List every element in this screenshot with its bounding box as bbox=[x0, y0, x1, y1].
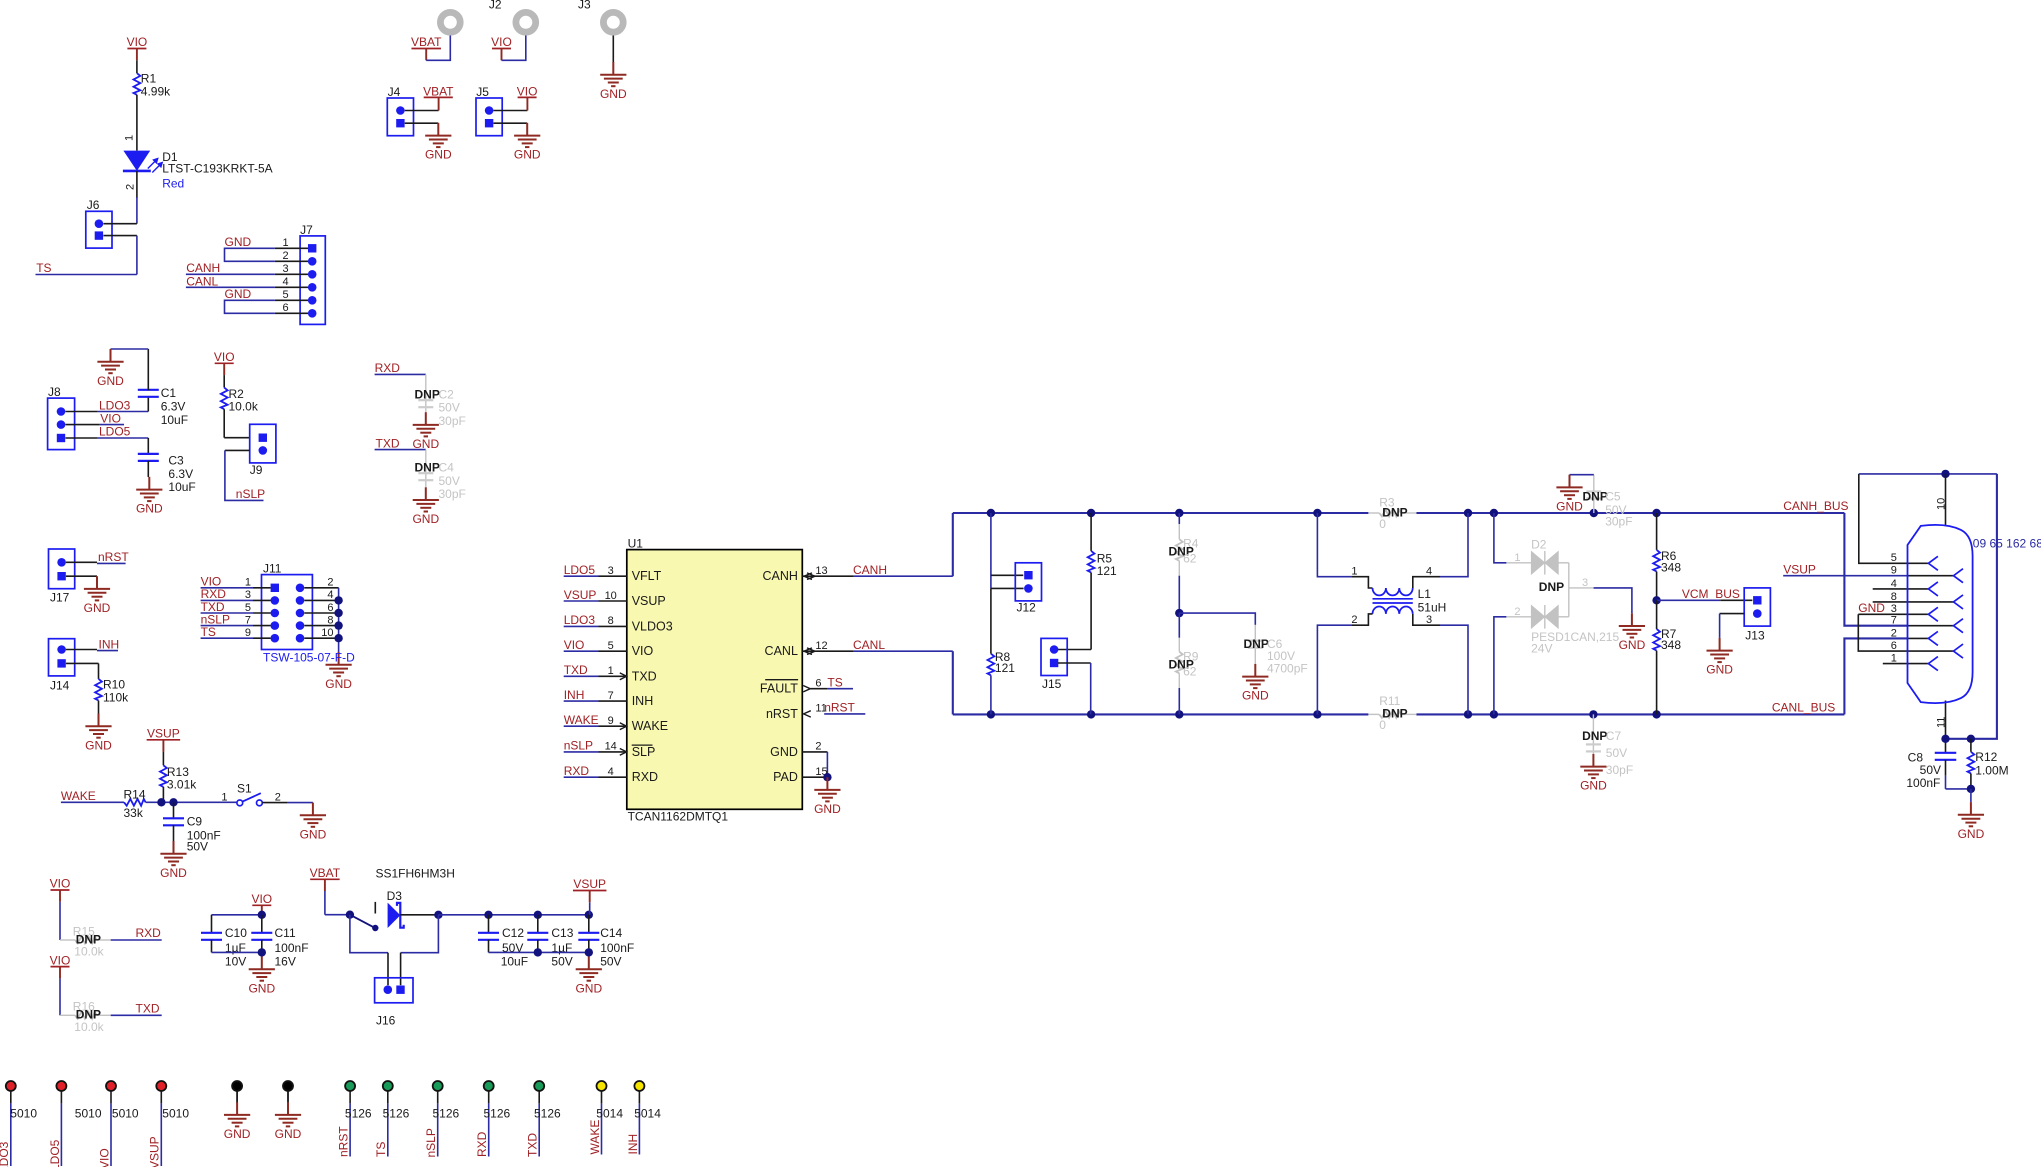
svg-text:GND: GND bbox=[275, 1127, 302, 1141]
J11 left pin wires bbox=[201, 587, 253, 589]
svg-text:6: 6 bbox=[282, 302, 288, 314]
wire bus to D2 pin1 bbox=[1494, 513, 1507, 563]
junction (bus bottom C7) bbox=[1589, 710, 1597, 718]
svg-text:RXD: RXD bbox=[375, 361, 401, 375]
wire DB9 pin1 stub bbox=[1883, 663, 1929, 665]
jumper J6 bbox=[86, 211, 112, 248]
wire L1 pin4 to bus top bbox=[1440, 513, 1468, 577]
svg-text:C13: C13 bbox=[551, 926, 573, 940]
jumper J16 bbox=[375, 978, 413, 1003]
svg-text:4: 4 bbox=[327, 589, 333, 601]
wire R1 to D1 anode bbox=[136, 95, 138, 151]
svg-text:J5: J5 bbox=[476, 85, 489, 99]
svg-text:7: 7 bbox=[1891, 615, 1897, 627]
svg-text:R2: R2 bbox=[229, 387, 245, 401]
wire CANH_BUS to DB9 pin7 bbox=[1844, 513, 1908, 626]
svg-text:24V: 24V bbox=[1531, 641, 1552, 655]
svg-text:6.3V: 6.3V bbox=[168, 467, 193, 481]
svg-text:2: 2 bbox=[275, 791, 281, 803]
svg-text:2: 2 bbox=[125, 184, 137, 190]
ground (C5) bbox=[1556, 475, 1582, 499]
net label RXD (R15) bbox=[111, 939, 162, 941]
svg-text:DNP: DNP bbox=[1382, 505, 1407, 519]
wire CANH bus top bbox=[953, 512, 1369, 514]
wire J9 pin2 to nSLP bbox=[225, 449, 250, 451]
svg-text:5126: 5126 bbox=[345, 1107, 372, 1121]
wire C10/C11 bottom rail bbox=[212, 951, 262, 953]
wire R2 to J9 bbox=[223, 409, 225, 438]
test point TP7 nRST 5126 bbox=[345, 1081, 355, 1091]
svg-text:GND: GND bbox=[136, 502, 163, 516]
wire VSUP to R13 bbox=[162, 752, 164, 766]
svg-text:1: 1 bbox=[1891, 653, 1897, 665]
junction (bus top R4) bbox=[1175, 509, 1183, 517]
svg-text:R10: R10 bbox=[103, 678, 125, 692]
ground (D2) bbox=[1619, 613, 1645, 637]
svg-text:GND: GND bbox=[248, 981, 275, 995]
capacitor C5 DNP bbox=[1593, 475, 1595, 513]
svg-text:CANL: CANL bbox=[765, 644, 798, 658]
wire J13 pin2 to ground bbox=[1720, 613, 1745, 615]
svg-text:1: 1 bbox=[245, 577, 251, 589]
wire R10 to ground bbox=[98, 701, 100, 714]
J7 pin wires and numbers bbox=[275, 247, 308, 249]
svg-text:J9: J9 bbox=[250, 463, 263, 477]
svg-text:GND: GND bbox=[84, 601, 111, 615]
jumper J13 bbox=[1744, 588, 1770, 626]
ground (C8/R12) bbox=[1958, 802, 1984, 826]
svg-text:4: 4 bbox=[282, 276, 288, 288]
svg-text:GND: GND bbox=[160, 866, 187, 880]
wire R13 to WAKE node bbox=[162, 787, 164, 802]
capacitor C8 bbox=[1945, 739, 1947, 753]
svg-text:1.00M: 1.00M bbox=[1975, 763, 2008, 777]
svg-text:121: 121 bbox=[995, 661, 1015, 675]
wire J16 bypass left bbox=[350, 915, 388, 953]
svg-text:4700pF: 4700pF bbox=[1267, 662, 1308, 676]
svg-text:GND: GND bbox=[1242, 689, 1269, 703]
svg-text:4: 4 bbox=[1426, 566, 1432, 578]
wire R7 to bus bottom bbox=[1656, 651, 1658, 715]
ground (J5) bbox=[514, 123, 540, 147]
svg-text:VIO: VIO bbox=[97, 1148, 111, 1167]
svg-text:5126: 5126 bbox=[433, 1107, 460, 1121]
svg-text:9: 9 bbox=[245, 627, 251, 639]
svg-text:CANH_BUS: CANH_BUS bbox=[1783, 499, 1848, 513]
svg-text:1: 1 bbox=[282, 237, 288, 249]
svg-text:5: 5 bbox=[245, 602, 251, 614]
jumper J5 bbox=[476, 98, 502, 136]
svg-text:8: 8 bbox=[608, 615, 614, 627]
svg-text:GND: GND bbox=[1958, 827, 1985, 841]
svg-text:2: 2 bbox=[1891, 627, 1897, 639]
test point TP2 LDO5 5010 bbox=[56, 1081, 66, 1091]
wire D3 cathode to node bbox=[400, 914, 438, 916]
svg-text:50V: 50V bbox=[1606, 746, 1627, 760]
svg-text:2: 2 bbox=[327, 577, 333, 589]
svg-text:50V: 50V bbox=[551, 954, 572, 968]
ground (C1) bbox=[97, 349, 123, 373]
svg-text:DNP: DNP bbox=[415, 460, 440, 474]
svg-text:GND: GND bbox=[1619, 638, 1646, 652]
svg-text:WAKE: WAKE bbox=[588, 1120, 602, 1155]
wire J12 pin2 bbox=[991, 587, 1024, 589]
connector J7 bbox=[300, 236, 325, 325]
svg-text:INH: INH bbox=[564, 688, 585, 702]
wire J6 pin2 to TS net bbox=[103, 235, 136, 237]
svg-text:J16: J16 bbox=[376, 1014, 396, 1028]
test point TP3 VIO 5010 bbox=[106, 1081, 116, 1091]
svg-text:DNP: DNP bbox=[1582, 729, 1607, 743]
svg-text:VIO: VIO bbox=[127, 35, 148, 49]
wire J4 pin2 to ground bbox=[405, 122, 439, 124]
wire J11 right common bbox=[338, 588, 340, 652]
wire C8/R12 bottom rail bbox=[1946, 788, 1971, 790]
svg-text:4: 4 bbox=[1891, 578, 1897, 590]
wire J5 pin2 to ground bbox=[493, 122, 527, 124]
svg-text:DNP: DNP bbox=[415, 387, 440, 401]
junction (C12 top) bbox=[484, 911, 492, 919]
svg-text:51uH: 51uH bbox=[1418, 601, 1447, 615]
svg-text:0: 0 bbox=[1379, 718, 1386, 732]
svg-text:GND: GND bbox=[225, 287, 252, 301]
wire VIO to R15 bbox=[59, 902, 61, 940]
junction (J11 pin 6) bbox=[334, 609, 342, 617]
svg-text:VSUP: VSUP bbox=[147, 727, 180, 741]
svg-text:CANL_BUS: CANL_BUS bbox=[1772, 701, 1835, 715]
svg-text:LDO5: LDO5 bbox=[564, 563, 596, 577]
svg-text:11: 11 bbox=[1936, 717, 1948, 728]
svg-text:GND: GND bbox=[814, 802, 841, 816]
svg-text:10.0k: 10.0k bbox=[74, 1020, 104, 1034]
svg-text:D2: D2 bbox=[1531, 537, 1547, 551]
ground (C7) bbox=[1580, 754, 1606, 778]
svg-text:VLDO3: VLDO3 bbox=[632, 619, 673, 633]
svg-text:5126: 5126 bbox=[534, 1107, 561, 1121]
svg-text:5010: 5010 bbox=[10, 1107, 37, 1121]
test point TP9 nSLP 5126 bbox=[433, 1081, 443, 1091]
wire DB9 top shell rail bbox=[1859, 473, 1997, 475]
svg-text:4: 4 bbox=[608, 766, 614, 778]
capacitor C12 bbox=[488, 915, 490, 933]
ground (J17) bbox=[84, 576, 110, 600]
test point TP13 INH 5014 bbox=[634, 1081, 644, 1091]
svg-text:121: 121 bbox=[1097, 564, 1117, 578]
wire bus to D2 pin2 bbox=[1494, 617, 1507, 715]
svg-text:C1: C1 bbox=[161, 386, 177, 400]
junction (bus bottom L1 in) bbox=[1313, 710, 1321, 718]
svg-text:VSUP: VSUP bbox=[564, 588, 597, 602]
wire C1 top rail bbox=[111, 348, 149, 350]
svg-text:5: 5 bbox=[1891, 552, 1897, 564]
svg-text:GND: GND bbox=[85, 738, 112, 752]
ground (C4) bbox=[413, 487, 439, 511]
junction (J11 pin 4) bbox=[334, 596, 342, 604]
svg-text:1: 1 bbox=[1351, 566, 1357, 578]
svg-text:VIO: VIO bbox=[517, 84, 538, 98]
wire J15 pin2 to bus bottom bbox=[1058, 662, 1091, 664]
junction (bus top L1 in) bbox=[1313, 509, 1321, 517]
svg-text:62: 62 bbox=[1183, 664, 1197, 678]
svg-text:nSLP: nSLP bbox=[564, 739, 593, 753]
svg-text:SS1FH6HM3H: SS1FH6HM3H bbox=[376, 867, 455, 881]
wire R4 to VCM node bbox=[1178, 576, 1180, 613]
wire VCM node to J13 bbox=[1657, 599, 1721, 601]
svg-text:GND: GND bbox=[514, 148, 541, 162]
svg-text:2: 2 bbox=[815, 741, 821, 753]
resistor R1 bbox=[134, 73, 141, 95]
svg-text:CANL: CANL bbox=[186, 274, 218, 288]
wire C5 to ground bbox=[1570, 474, 1594, 476]
ground (C3) bbox=[136, 477, 162, 501]
svg-text:6: 6 bbox=[1891, 640, 1897, 652]
svg-text:VIO: VIO bbox=[214, 350, 235, 364]
svg-text:348: 348 bbox=[1661, 638, 1681, 652]
svg-text:J11: J11 bbox=[263, 561, 282, 575]
test point TP6 GND bbox=[283, 1081, 293, 1091]
svg-text:8: 8 bbox=[327, 614, 333, 626]
svg-text:VIO: VIO bbox=[564, 638, 585, 652]
svg-text:5014: 5014 bbox=[596, 1107, 623, 1121]
resistor R6 348 bbox=[1653, 550, 1660, 572]
wire R8 to bus bottom bbox=[990, 675, 992, 714]
svg-text:INH: INH bbox=[632, 694, 654, 708]
svg-text:LDO3: LDO3 bbox=[99, 398, 131, 412]
wire CANH drop to J12 bbox=[990, 513, 992, 588]
wire DB9 shell right side bbox=[1946, 474, 1997, 739]
wire bus to R4 bbox=[1178, 513, 1180, 524]
wire J12 to R8 bbox=[990, 588, 992, 653]
svg-text:C11: C11 bbox=[275, 926, 296, 940]
ground (C2) bbox=[413, 412, 439, 436]
svg-text:9: 9 bbox=[1891, 565, 1897, 577]
svg-text:4.99k: 4.99k bbox=[141, 84, 171, 98]
svg-text:6: 6 bbox=[815, 678, 821, 690]
wire DB9 pin4 stub bbox=[1873, 588, 1929, 590]
wire D3 node to VSUP rail bbox=[438, 914, 588, 916]
svg-text:L1: L1 bbox=[1418, 587, 1432, 601]
svg-text:VIO: VIO bbox=[632, 644, 654, 658]
ground (S1) bbox=[300, 803, 326, 827]
junction (DB9 pin10) bbox=[1941, 470, 1949, 478]
svg-text:12: 12 bbox=[815, 640, 827, 652]
ground (J4) bbox=[425, 123, 451, 147]
resistor R9 DNP 162 bbox=[1178, 613, 1180, 638]
junction (VCM node) bbox=[1652, 596, 1660, 604]
svg-text:J12: J12 bbox=[1017, 601, 1037, 615]
capacitor C7 DNP bbox=[1592, 714, 1594, 754]
wire loop J3 to ground bbox=[612, 36, 614, 63]
test point TP11 TXD 5126 bbox=[534, 1081, 544, 1091]
svg-text:GND: GND bbox=[225, 235, 252, 249]
test point TP5 GND bbox=[232, 1081, 242, 1091]
wire J5 pin1 to VIO bbox=[493, 110, 527, 112]
junction (D3 cathode node) bbox=[434, 911, 442, 919]
J11 right pin wires bbox=[304, 587, 338, 589]
svg-text:GND: GND bbox=[325, 677, 352, 691]
svg-text:R1: R1 bbox=[141, 72, 157, 86]
ground (C12-C14) bbox=[576, 957, 602, 981]
svg-text:R14: R14 bbox=[124, 787, 146, 801]
junction (bus top D2) bbox=[1490, 509, 1498, 517]
wire C10/C11 top rail bbox=[212, 914, 262, 916]
svg-text:VBAT: VBAT bbox=[423, 84, 454, 98]
svg-text:DNP: DNP bbox=[1244, 637, 1269, 651]
junction (C11 bottom) bbox=[258, 948, 266, 956]
svg-text:CANL: CANL bbox=[853, 638, 885, 652]
svg-text:RXD: RXD bbox=[475, 1131, 489, 1157]
svg-text:C10: C10 bbox=[225, 926, 247, 940]
connector J8 bbox=[48, 398, 75, 450]
svg-text:13: 13 bbox=[815, 565, 827, 577]
resistor R7 348 bbox=[1656, 600, 1658, 629]
test point TP4 VSUP 5010 bbox=[156, 1081, 166, 1091]
svg-text:C2: C2 bbox=[439, 387, 455, 401]
svg-text:6: 6 bbox=[327, 602, 333, 614]
junction (C11 top) bbox=[258, 911, 266, 919]
wire GND to DB9 pin6 bbox=[1858, 614, 1953, 651]
svg-text:5010: 5010 bbox=[162, 1107, 189, 1121]
svg-text:nRST: nRST bbox=[766, 707, 798, 721]
svg-text:50V: 50V bbox=[439, 474, 460, 488]
svg-text:INH: INH bbox=[99, 637, 120, 651]
wire J17 pin2 to ground bbox=[66, 575, 97, 577]
svg-text:FAULT: FAULT bbox=[760, 682, 798, 696]
svg-text:VSUP: VSUP bbox=[1783, 562, 1816, 576]
wire J4 pin1 to VBAT bbox=[405, 110, 439, 112]
capacitor C11 bbox=[261, 915, 263, 933]
wire J16 bypass right bbox=[401, 915, 439, 953]
capacitor C1 bbox=[147, 397, 149, 411]
junction (C13 bottom) bbox=[534, 948, 542, 956]
svg-text:1: 1 bbox=[608, 665, 614, 677]
jumper J17 bbox=[49, 549, 75, 589]
test point TP12 WAKE 5014 bbox=[597, 1081, 607, 1091]
svg-text:50V: 50V bbox=[187, 840, 208, 854]
svg-text:LDO5: LDO5 bbox=[99, 425, 131, 439]
svg-text:J4: J4 bbox=[388, 85, 401, 99]
svg-text:R12: R12 bbox=[1975, 750, 1997, 764]
junction (bus top C5) bbox=[1590, 509, 1598, 517]
wire bus to L1 pin1 bbox=[1317, 513, 1352, 577]
test point TP1 LDO3 5010 bbox=[6, 1081, 16, 1091]
svg-text:10uF: 10uF bbox=[501, 954, 528, 968]
junction (D3 anode node) bbox=[346, 911, 354, 919]
svg-text:J8: J8 bbox=[48, 385, 61, 399]
svg-text:VBAT: VBAT bbox=[310, 866, 341, 880]
svg-text:GND: GND bbox=[1580, 779, 1607, 793]
svg-text:6.3V: 6.3V bbox=[161, 400, 186, 414]
svg-text:14: 14 bbox=[605, 741, 617, 753]
svg-text:2: 2 bbox=[282, 250, 288, 262]
capacitor C4 DNP bbox=[425, 450, 427, 488]
junction (R13 node) bbox=[157, 798, 165, 806]
test point TP10 RXD 5126 bbox=[484, 1081, 494, 1091]
svg-text:10V: 10V bbox=[225, 954, 246, 968]
wire J14 pin2 to R10 bbox=[66, 662, 99, 664]
svg-text:5010: 5010 bbox=[75, 1107, 102, 1121]
DB9 pin sockets bbox=[1928, 556, 1963, 670]
wire bus to R6 bbox=[1656, 513, 1658, 550]
ground (TP6) bbox=[275, 1102, 301, 1126]
svg-text:1: 1 bbox=[124, 135, 136, 141]
svg-text:10: 10 bbox=[605, 590, 617, 602]
svg-text:LDO3: LDO3 bbox=[564, 613, 596, 627]
wire D1 cathode to J6 bbox=[136, 171, 138, 198]
wire TP6 to ground bbox=[287, 1091, 289, 1102]
wire bus to L1 pin2 bbox=[1317, 625, 1352, 714]
svg-text:3: 3 bbox=[1891, 603, 1897, 615]
svg-text:TS: TS bbox=[827, 676, 842, 690]
svg-text:WAKE: WAKE bbox=[61, 789, 96, 803]
svg-text:GND: GND bbox=[1556, 500, 1583, 514]
junction (bus bottom D2) bbox=[1490, 710, 1498, 718]
IC U1 TCAN1162DMTQ1 bbox=[627, 550, 803, 810]
junction (bus bottom L1 out) bbox=[1464, 710, 1472, 718]
wire TP5 to ground bbox=[236, 1091, 238, 1102]
svg-text:C5: C5 bbox=[1605, 490, 1621, 504]
svg-text:3: 3 bbox=[608, 565, 614, 577]
junction (bus bottom R9) bbox=[1175, 710, 1183, 718]
svg-text:5014: 5014 bbox=[634, 1107, 661, 1121]
junction (C9 node) bbox=[169, 798, 177, 806]
resistor R15 DNP bbox=[60, 939, 75, 941]
svg-text:10: 10 bbox=[1936, 498, 1948, 510]
svg-text:110k: 110k bbox=[103, 691, 129, 705]
junction (C8 top) bbox=[1941, 735, 1949, 743]
wire R9 to bus bottom bbox=[1178, 688, 1180, 714]
svg-text:10.0k: 10.0k bbox=[74, 945, 104, 959]
svg-text:TXD: TXD bbox=[632, 669, 657, 683]
wire DB9 pin10 bbox=[1945, 474, 1947, 526]
wire WAKE to R14 bbox=[61, 801, 124, 803]
svg-text:R13: R13 bbox=[167, 765, 189, 779]
wire R14 to S1 bbox=[146, 801, 238, 803]
capacitor C2 DNP bbox=[425, 374, 427, 412]
wire R5 to J15 pin1 bbox=[1090, 573, 1092, 650]
svg-text:30pF: 30pF bbox=[439, 487, 466, 501]
svg-text:10: 10 bbox=[321, 627, 333, 639]
wire GND to DB9 pin3 bbox=[1858, 613, 1928, 615]
svg-text:WAKE: WAKE bbox=[632, 719, 668, 733]
jumper J15 bbox=[1041, 638, 1067, 675]
capacitor C10 bbox=[211, 915, 213, 933]
svg-text:100nF: 100nF bbox=[1906, 776, 1940, 790]
svg-text:WAKE: WAKE bbox=[564, 713, 599, 727]
svg-text:PAD: PAD bbox=[773, 770, 798, 784]
resistor R2 bbox=[221, 388, 228, 410]
resistor R16 DNP bbox=[60, 1014, 75, 1016]
svg-text:VCM_BUS: VCM_BUS bbox=[1682, 587, 1740, 601]
svg-text:3.01k: 3.01k bbox=[167, 778, 197, 792]
svg-text:GND: GND bbox=[575, 981, 602, 995]
jumper J14 bbox=[49, 639, 75, 676]
svg-text:INH: INH bbox=[626, 1134, 640, 1155]
svg-text:C7: C7 bbox=[1606, 729, 1622, 743]
connector J1 DB9 shell bbox=[1908, 525, 1973, 703]
svg-text:TCAN1162DMTQ1: TCAN1162DMTQ1 bbox=[628, 810, 729, 824]
wire J12 pin1 bbox=[991, 574, 1023, 576]
svg-text:2: 2 bbox=[1514, 606, 1520, 618]
svg-text:RXD: RXD bbox=[136, 926, 162, 940]
svg-text:GND: GND bbox=[300, 827, 327, 841]
ground (J3) bbox=[600, 62, 626, 86]
svg-text:1: 1 bbox=[221, 791, 227, 803]
wire VIO to R2 bbox=[223, 375, 225, 388]
ground (R10) bbox=[85, 714, 111, 738]
svg-text:50V: 50V bbox=[439, 401, 460, 415]
svg-text:VIO: VIO bbox=[251, 892, 272, 906]
